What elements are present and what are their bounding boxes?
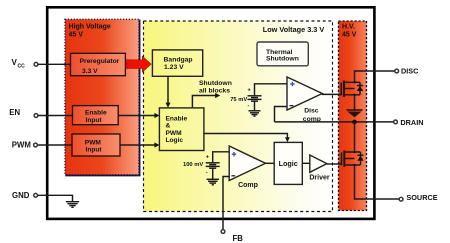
svg-text:45 V: 45 V <box>69 32 84 39</box>
wire driver out <box>327 163 342 165</box>
svg-text:PWM: PWM <box>12 141 31 150</box>
svg-text:SOURCE: SOURCE <box>406 193 437 202</box>
svg-text:-: - <box>248 103 250 109</box>
svg-text:H.V.: H.V. <box>342 24 355 31</box>
svg-text:Low Voltage 3.3 V: Low Voltage 3.3 V <box>263 25 325 34</box>
svg-text:-: - <box>206 170 208 176</box>
wire enable-input to logic <box>118 115 155 117</box>
wire VCC <box>38 63 71 65</box>
node drain junction <box>352 120 357 125</box>
pin PWM <box>34 143 38 147</box>
wire shutdown all blocks <box>192 96 215 109</box>
logic box <box>274 142 302 184</box>
svg-text:75 mV: 75 mV <box>230 97 247 103</box>
wire comp- / FB <box>223 177 229 230</box>
svg-text:1.23 V: 1.23 V <box>164 64 184 71</box>
svg-text:CC: CC <box>18 63 26 69</box>
svg-text:High Voltage: High Voltage <box>69 23 111 30</box>
high voltage region (left) <box>65 19 139 175</box>
wire disc comp out <box>322 93 341 95</box>
pin FB <box>221 230 225 234</box>
wire EN <box>38 115 73 117</box>
battery V1 75 mV with ground <box>248 84 288 116</box>
pwm input box <box>72 134 120 156</box>
battery V2 100 mV with ground <box>206 152 230 185</box>
wire logic to driver <box>302 162 310 164</box>
wire GND <box>37 195 72 201</box>
mosfet Q1 (disc fet) <box>341 71 395 110</box>
svg-text:DISC: DISC <box>401 66 419 75</box>
svg-text:Shutdown: Shutdown <box>266 55 299 62</box>
low voltage region <box>144 21 333 212</box>
pin EN <box>34 114 38 118</box>
pin VCC <box>34 62 38 66</box>
wire disc- to drain line <box>275 107 288 122</box>
enable input box <box>73 106 119 125</box>
mosfet Q2 (main fet) <box>342 150 400 199</box>
chip outline <box>47 7 374 219</box>
svg-text:Bandgap: Bandgap <box>164 56 193 63</box>
bandgap box <box>152 50 202 76</box>
svg-text:Enable: Enable <box>166 116 188 123</box>
svg-text:Logic: Logic <box>279 159 298 168</box>
svg-text:45 V: 45 V <box>342 31 357 38</box>
svg-text:PWM: PWM <box>85 139 102 146</box>
wire drain <box>275 121 395 123</box>
wire comp out <box>266 162 275 164</box>
driver buffer <box>310 155 327 172</box>
preregulator box <box>71 53 126 75</box>
svg-text:EN: EN <box>9 108 20 117</box>
svg-text:Input: Input <box>86 147 103 154</box>
op-amp comp <box>229 146 265 181</box>
pin DRAIN <box>394 120 398 124</box>
op-amp disc comp <box>287 77 322 110</box>
wire E&P logic to Logic <box>204 134 288 139</box>
wire bandgap down <box>167 76 169 103</box>
svg-text:Comp: Comp <box>238 182 258 189</box>
svg-text:100 mV: 100 mV <box>183 162 203 168</box>
svg-text:Driver: Driver <box>309 175 330 182</box>
svg-text:PWM: PWM <box>166 130 183 137</box>
thermal shutdown box <box>257 42 308 66</box>
svg-text:GND: GND <box>12 191 30 200</box>
wire PWM <box>38 144 72 146</box>
wire lower fet drain <box>354 122 356 152</box>
svg-text:all blocks: all blocks <box>199 88 230 95</box>
high voltage region (right) <box>339 21 367 211</box>
svg-text:&: & <box>166 123 171 130</box>
svg-text:Logic: Logic <box>166 137 184 144</box>
ground GND <box>66 202 79 208</box>
pin DISC <box>395 69 399 73</box>
svg-text:Shutdown: Shutdown <box>199 80 232 87</box>
pin SOURCE <box>399 197 403 201</box>
svg-text:DRAIN: DRAIN <box>400 118 423 127</box>
ground (red box) <box>347 109 363 111</box>
enable & pwm logic box <box>159 108 204 151</box>
wire pwm-input to logic <box>120 144 155 146</box>
svg-text:3.3 V: 3.3 V <box>82 68 98 75</box>
svg-text:Disc: Disc <box>304 107 319 114</box>
svg-text:Preregulator: Preregulator <box>80 58 120 65</box>
arrow preregulator to bandgap <box>126 56 151 72</box>
svg-text:Input: Input <box>86 117 103 124</box>
pin GND <box>34 193 38 197</box>
svg-text:FB: FB <box>233 234 244 243</box>
svg-text:Enable: Enable <box>85 110 107 117</box>
